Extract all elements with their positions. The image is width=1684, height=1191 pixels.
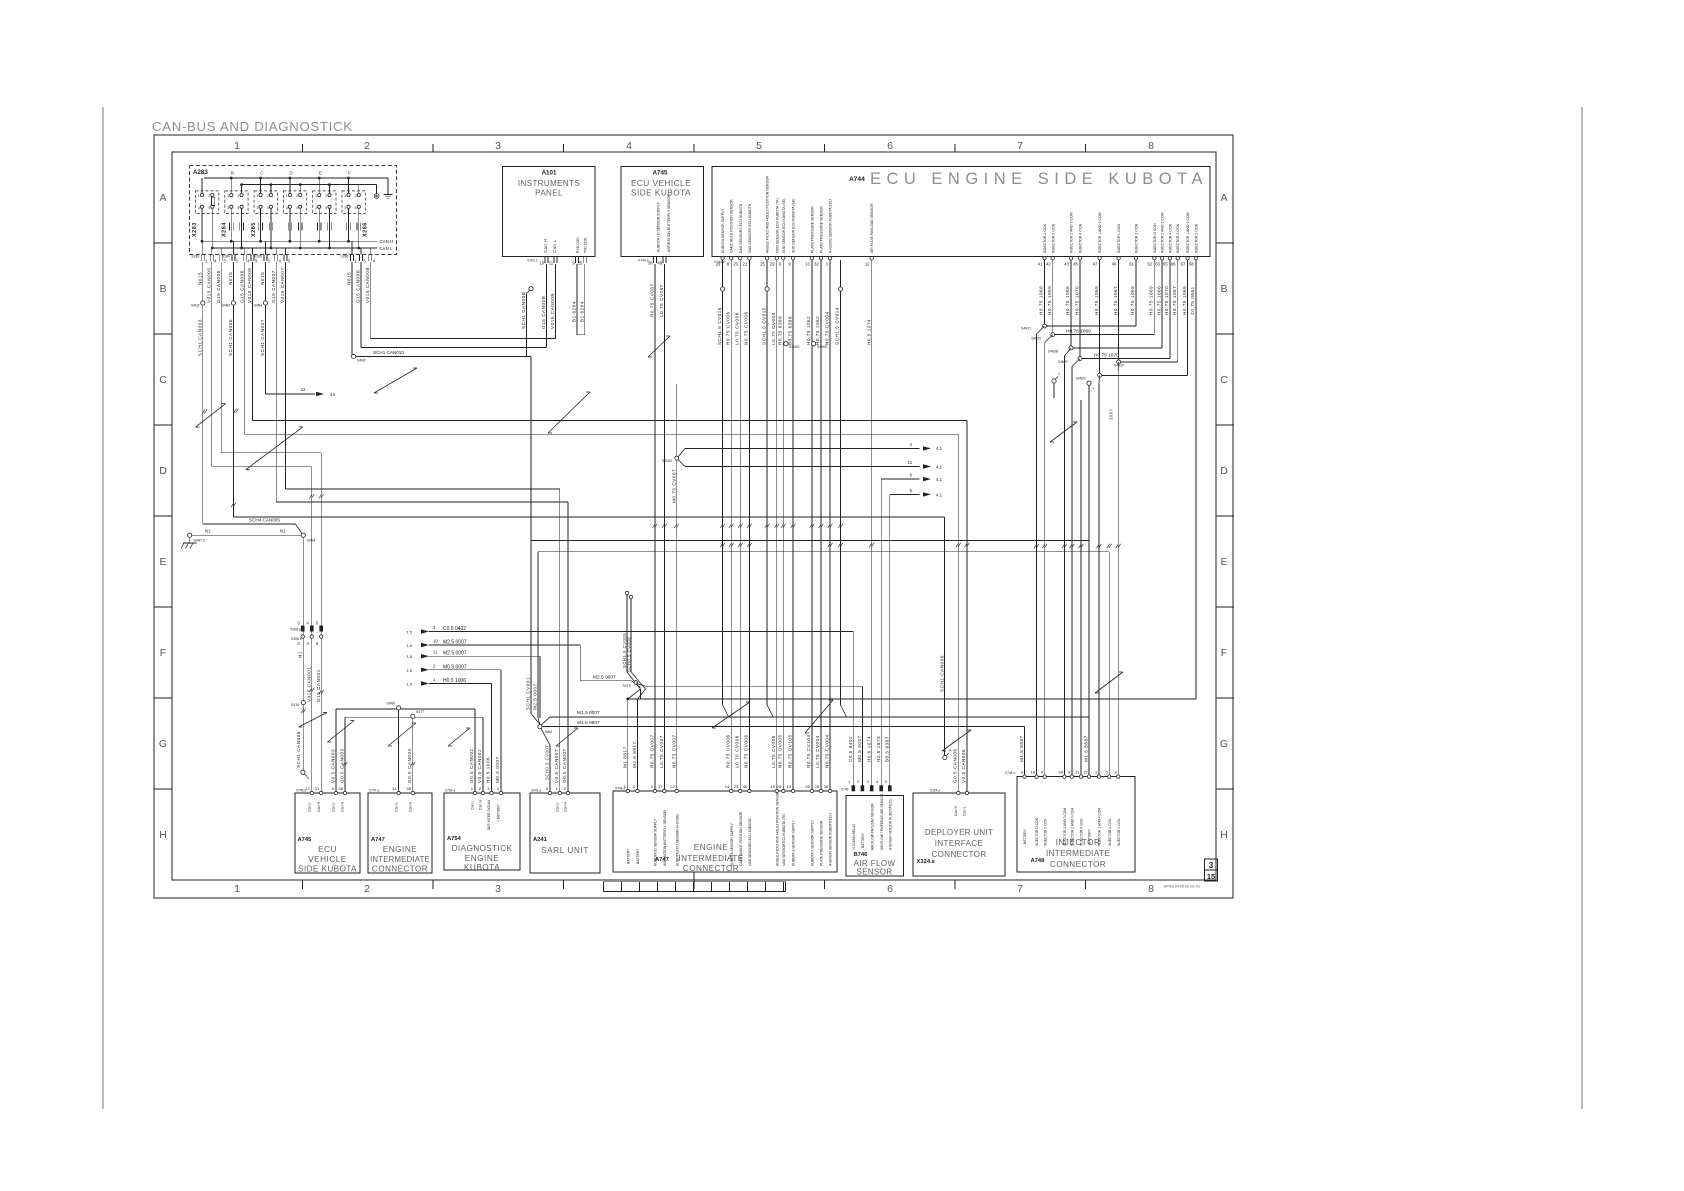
svg-text:Can H: Can H: [564, 801, 568, 812]
svg-text:H0.5 1006: H0.5 1006: [486, 757, 491, 783]
svg-text:R0.75 CV104: R0.75 CV104: [806, 734, 811, 768]
svg-text:H0.5 1074: H0.5 1074: [866, 319, 871, 345]
svg-text:4: 4: [355, 206, 357, 210]
svg-text:Can H: Can H: [954, 805, 958, 816]
svg-text:B: B: [159, 283, 166, 295]
svg-text:V015 CAN007: V015 CAN007: [280, 268, 285, 303]
connector block A283 dashed outline: [190, 166, 397, 255]
svg-text:Can L: Can L: [394, 802, 398, 812]
svg-text:X101.1: X101.1: [527, 259, 538, 263]
outer border frame: [154, 135, 1233, 898]
svg-text:67: 67: [1181, 262, 1186, 267]
injector verticals lower: [1080, 400, 1082, 775]
svg-text:SIDE KUBOTA: SIDE KUBOTA: [631, 189, 691, 198]
svg-text:KUBOTA ID SENSOR SUPPLY: KUBOTA ID SENSOR SUPPLY: [654, 818, 658, 866]
svg-text:G15 CAN00B: G15 CAN00B: [356, 270, 361, 303]
svg-text:M1.5 0807: M1.5 0807: [577, 720, 600, 726]
svg-text:PLATE PRESSURE SENSOR: PLATE PRESSURE SENSOR: [820, 820, 824, 866]
svg-text:41: 41: [1038, 262, 1043, 267]
svg-text:INJECTOR 2 CON: INJECTOR 2 CON: [1135, 223, 1139, 253]
inner drawing frame: [172, 152, 1216, 880]
svg-text:S4T7: S4T7: [416, 710, 424, 714]
wire N0.75 CV006: [748, 260, 750, 791]
svg-text:SCH1 CAN007: SCH1 CAN007: [260, 319, 265, 356]
svg-text:CMD SENSOR ECU KUBOTA (TK): CMD SENSOR ECU KUBOTA (TK): [775, 198, 779, 253]
svg-text:H0.75 1070: H0.75 1070: [1164, 286, 1169, 315]
svg-text:D: D: [289, 171, 293, 177]
svg-text:CONNECTOR: CONNECTOR: [1050, 860, 1106, 869]
A283 sub-connector B pin stubs: [230, 178, 232, 193]
wire G15 CAN007: [275, 262, 277, 502]
A283 sub-connector A dashed box: [196, 191, 219, 214]
svg-text:1: 1: [234, 140, 240, 152]
wire M2.5 8817: [638, 689, 646, 699]
svg-text:DEPLOYER UNIT: DEPLOYER UNIT: [925, 828, 993, 837]
A283 terminating resistor: [212, 197, 215, 205]
svg-text:68: 68: [1189, 262, 1194, 267]
svg-text:S4N02: S4N02: [789, 345, 799, 349]
svg-text:H0.75 1068: H0.75 1068: [1130, 286, 1135, 315]
svg-text:KUBOTA 3 SENSOR SUPPLY: KUBOTA 3 SENSOR SUPPLY: [811, 820, 815, 866]
A283 CAN H rail: [203, 240, 377, 242]
bus V015 CAN007 to A241: [286, 488, 560, 490]
svg-text:G15 CAN006: G15 CAN006: [240, 270, 245, 303]
svg-text:23: 23: [733, 262, 738, 267]
svg-text:M2.5 0007: M2.5 0007: [533, 683, 538, 710]
A283 sub-connector B dashed box: [225, 191, 248, 214]
wire R0.75 6388: [782, 260, 784, 791]
svg-text:38: 38: [339, 786, 344, 791]
svg-text:4: 4: [626, 140, 632, 152]
svg-text:4.1: 4.1: [936, 465, 943, 470]
twist slash over deployer wires: [942, 730, 971, 751]
svg-text:S4N6: S4N6: [222, 304, 231, 308]
svg-text:ENGINE: ENGINE: [465, 854, 499, 863]
bus G15 CAN00B: [361, 347, 546, 349]
wire V015 CAN007: [285, 262, 287, 489]
block DEPLOYER UNIT INTERFACE CONNECTOR: [913, 793, 1005, 876]
svg-text:INJECTOR 4 CON: INJECTOR 4 CON: [1079, 223, 1083, 253]
svg-text:G15 CAN001: G15 CAN001: [316, 669, 321, 702]
wire N015 to SCH1 CAN010 node: [351, 262, 353, 356]
bus SCH1 CAN006 to deployer: [233, 516, 944, 518]
bus CAN003 upper: [336, 708, 475, 710]
twist slash near arrow 42: [374, 368, 417, 393]
wire B1 6204 b: [584, 264, 586, 335]
wire H0.75 1062: [811, 260, 813, 791]
svg-text:ASPIRATION BUTTERFLY SENSOR: ASPIRATION BUTTERFLY SENSOR: [667, 194, 671, 252]
twist slash over A747b drops: [388, 723, 416, 746]
svg-text:X754.a: X754.a: [445, 789, 455, 793]
svg-text:AIR FLOW PAYLOAD SENSOR: AIR FLOW PAYLOAD SENSOR: [870, 803, 874, 850]
svg-text:INTERMEDIATE: INTERMEDIATE: [678, 854, 743, 863]
svg-text:21: 21: [743, 262, 748, 267]
bus M1.5 0007: [542, 717, 550, 725]
svg-text:1: 1: [227, 194, 229, 198]
svg-text:DIAGNOSTICK: DIAGNOSTICK: [452, 844, 513, 853]
open node 1: [1052, 379, 1056, 383]
A745 top pins: [652, 257, 654, 263]
svg-text:S4N2V: S4N2V: [1076, 377, 1087, 381]
bus G15 CAN005 to A745b: [221, 452, 321, 454]
svg-text:M1.5 8887: M1.5 8887: [1084, 735, 1089, 762]
svg-text:INTERMEDIATE: INTERMEDIATE: [370, 855, 430, 864]
page edge line left: [102, 107, 104, 1109]
svg-text:4.1: 4.1: [936, 446, 943, 451]
block A747 ENGINE INTERMEDIATE CONNECTOR small: [368, 793, 432, 873]
svg-text:B1 6204: B1 6204: [579, 301, 584, 322]
svg-text:G0.5 CAN003: G0.5 CAN003: [340, 748, 345, 783]
A283 upper rail 2: [242, 184, 376, 186]
wire to A747b pin31: [398, 710, 400, 792]
svg-text:V015 CAN00B: V015 CAN00B: [365, 267, 370, 303]
svg-text:CAN H: CAN H: [380, 239, 394, 244]
svg-text:Can L: Can L: [471, 800, 475, 810]
bus SCH1 CAN010: [356, 355, 531, 357]
branch arrows 4 and 13: [678, 448, 685, 456]
svg-text:A+ENGIN SENSOR KUBOTA ECU: A+ENGIN SENSOR KUBOTA ECU: [888, 798, 892, 850]
svg-text:N1: N1: [298, 651, 303, 658]
svg-text:V015 CAN001: V015 CAN001: [307, 667, 312, 702]
svg-text:V015 CAN006: V015 CAN006: [247, 268, 252, 303]
svg-text:INJECTOR 3 CON: INJECTOR 3 CON: [1194, 223, 1198, 253]
node S4N8: [397, 706, 401, 710]
svg-text:INTERFACE: INTERFACE: [935, 839, 984, 848]
svg-text:H0.75 1065: H0.75 1065: [1094, 286, 1099, 315]
svg-text:INJECTOR 1 AND 4 COM: INJECTOR 1 AND 4 COM: [1098, 212, 1102, 253]
wire M1 8817: [640, 689, 642, 699]
svg-text:2: 2: [267, 194, 269, 198]
svg-text:43: 43: [1064, 262, 1069, 267]
svg-text:B0.75 6388: B0.75 6388: [787, 316, 792, 345]
svg-text:CAN L: CAN L: [380, 246, 393, 251]
svg-text:Can L: Can L: [556, 802, 560, 812]
svg-text:A745: A745: [653, 170, 668, 177]
X crossing S4T9: [626, 595, 628, 672]
svg-text:S4N2Y: S4N2Y: [1058, 360, 1069, 364]
svg-text:28: 28: [815, 784, 820, 789]
svg-text:SCH1 CAN006: SCH1 CAN006: [939, 655, 944, 692]
svg-text:2: 2: [237, 194, 239, 198]
wire SCH1.5 CV016: [721, 287, 725, 291]
svg-text:Z0.75 0681: Z0.75 0681: [1190, 286, 1195, 315]
svg-text:X324.a: X324.a: [930, 789, 940, 793]
svg-text:A241: A241: [533, 837, 548, 843]
svg-text:D: D: [159, 465, 167, 477]
svg-text:X324.s: X324.s: [917, 859, 935, 865]
svg-text:G15 CAN005: G15 CAN005: [216, 270, 221, 303]
arrow 6 to 4.1: [881, 478, 919, 480]
svg-text:G15 CAN00B: G15 CAN00B: [541, 296, 546, 329]
svg-text:31: 31: [315, 786, 320, 791]
svg-text:G: G: [159, 738, 167, 750]
svg-text:Can L: Can L: [332, 802, 336, 812]
wire G15 CAN00B from A101 pin10: [545, 264, 547, 348]
svg-text:E: E: [159, 556, 166, 568]
svg-text:3: 3: [495, 140, 501, 152]
svg-text:2: 2: [325, 194, 327, 198]
twist slash over injector merge: [1050, 422, 1077, 442]
wire L0.75 CV087: [663, 264, 665, 791]
svg-text:13: 13: [907, 460, 912, 465]
svg-text:VEHICLE: VEHICLE: [308, 855, 347, 864]
svg-text:X285: X285: [251, 222, 257, 237]
block B746 AIR FLOW SENSOR: [846, 796, 903, 876]
terminal strip under A747: [603, 881, 785, 883]
svg-text:B0.5 6387: B0.5 6387: [885, 736, 890, 762]
twist slash over CAN003 drops: [327, 721, 354, 743]
svg-text:Can H: Can H: [409, 801, 413, 812]
svg-text:N015: N015: [198, 272, 203, 285]
svg-text:2: 2: [355, 194, 357, 198]
bus M2.5 0007 arrow11: [429, 655, 540, 657]
svg-text:Can L: Can L: [552, 239, 557, 253]
wire G15 CAN005: [220, 262, 222, 453]
B1 6204 loop: [577, 334, 585, 336]
svg-text:M0.5 0007: M0.5 0007: [857, 735, 862, 762]
svg-text:Can L: Can L: [963, 806, 967, 816]
svg-text:CAM2 ANGLE POSITION SENSOR: CAM2 ANGLE POSITION SENSOR: [739, 811, 743, 866]
svg-text:GPSG 04.05.02 rev 01: GPSG 04.05.02 rev 01: [1164, 885, 1200, 889]
svg-text:A+GSOG SENSOR KUBOTA ECU: A+GSOG SENSOR KUBOTA ECU: [829, 199, 833, 253]
svg-text:1: 1: [315, 194, 317, 198]
node S4N0 on SCH1 CAN010: [352, 354, 356, 358]
wire SCH1 CV001: [530, 356, 532, 540]
svg-text:ECU VEHICLE: ECU VEHICLE: [631, 179, 691, 188]
bus V015 CAN00B: [370, 338, 555, 340]
svg-text:62: 62: [1147, 262, 1152, 267]
svg-text:KUBOTA: KUBOTA: [464, 863, 500, 872]
svg-text:32: 32: [814, 262, 819, 267]
svg-text:INJECTOR 4 CON: INJECTOR 4 CON: [1080, 818, 1084, 846]
twist slash over CV004 group: [805, 700, 833, 733]
wire V015 CAN005: [211, 262, 213, 467]
svg-text:M0.75 CV007: M0.75 CV007: [671, 469, 676, 503]
svg-text:SIDE KUBOTA: SIDE KUBOTA: [298, 865, 357, 874]
svg-text:L0.75 CV005: L0.75 CV005: [771, 735, 776, 768]
column ticks bottom: [302, 880, 304, 889]
svg-text:+ BATTERY: + BATTERY: [497, 803, 501, 822]
svg-text:INJECTOR 1 AND 4 COM: INJECTOR 1 AND 4 COM: [1098, 808, 1102, 846]
A101 pins: [544, 257, 546, 263]
svg-text:S4N21: S4N21: [1021, 327, 1031, 331]
wire V015 CAN006: [251, 262, 253, 421]
svg-text:4.1: 4.1: [936, 492, 943, 497]
svg-text:SARL UNIT: SARL UNIT: [541, 846, 589, 855]
twist slash over CAN006 group: [246, 427, 303, 470]
svg-text:Can H: Can H: [479, 799, 483, 810]
svg-text:V0.5 CAN003: V0.5 CAN003: [330, 749, 335, 783]
svg-text:10: 10: [433, 639, 438, 644]
wire SCH1 CAN00B from A101: [529, 287, 533, 291]
bus C0.5 0402 to B746 pin1: [429, 631, 853, 633]
A283 sub-connector F dashed box: [342, 191, 365, 214]
svg-text:PANEL: PANEL: [535, 189, 563, 198]
wire V015 CAN00B A283 side: [369, 262, 371, 339]
svg-text:25: 25: [578, 261, 583, 266]
svg-text:R0.75 CV006: R0.75 CV006: [725, 734, 730, 768]
svg-text:3: 3: [495, 883, 501, 895]
svg-text:6: 6: [887, 883, 893, 895]
wire G0.5 CAN004 to A747b: [412, 718, 414, 792]
svg-text:A744: A744: [849, 176, 865, 183]
svg-text:46: 46: [1112, 262, 1117, 267]
ground symbol: [189, 537, 191, 543]
svg-text:12: 12: [865, 262, 870, 267]
A283 sub-connector D dashed box: [283, 191, 306, 214]
svg-text:SCH0.5 CV007: SCH0.5 CV007: [545, 745, 550, 780]
svg-text:38: 38: [648, 261, 653, 266]
svg-text:S4N3B: S4N3B: [1048, 350, 1058, 354]
svg-text:L0.75 CV006: L0.75 CV006: [735, 735, 740, 768]
bus 699 long: [628, 698, 1196, 700]
svg-text:13: 13: [805, 262, 810, 267]
svg-text:23: 23: [734, 784, 739, 789]
svg-text:G: G: [1220, 738, 1228, 750]
svg-text:A748: A748: [1031, 858, 1046, 864]
svg-text:4: 4: [208, 206, 210, 210]
wire R0.75 CV006: [730, 260, 732, 791]
svg-text:V015 CAN005: V015 CAN005: [207, 268, 212, 303]
svg-text:N0.75 CV004: N0.75 CV004: [824, 734, 829, 768]
X crossing diag to bus 686: [637, 684, 646, 687]
svg-text:15: 15: [770, 784, 775, 789]
row ticks right: [1216, 242, 1234, 244]
svg-text:H0.5 1074: H0.5 1074: [866, 736, 871, 762]
svg-text:N0.75 CV006: N0.75 CV006: [744, 734, 749, 768]
svg-text:4: 4: [237, 206, 239, 210]
svg-text:M0.5 0007: M0.5 0007: [495, 756, 500, 783]
injector merge node S4N2Y: [1079, 260, 1081, 359]
injector merge node S4N29: [1052, 260, 1054, 335]
svg-text:29: 29: [770, 262, 775, 267]
svg-text:X744.a: X744.a: [714, 260, 725, 264]
svg-text:N0.75 CV005: N0.75 CV005: [778, 734, 783, 768]
svg-text:R0.75 6388: R0.75 6388: [778, 316, 783, 345]
svg-text:48: 48: [657, 261, 662, 266]
injector merge node S4N2V: [1099, 260, 1101, 376]
svg-text:V0.5 CAN006: V0.5 CAN006: [961, 749, 966, 783]
svg-text:F: F: [348, 171, 351, 177]
svg-text:5: 5: [756, 140, 762, 152]
svg-text:F: F: [160, 647, 166, 659]
svg-text:4.1: 4.1: [936, 477, 943, 482]
svg-text:V0.5 CAN007: V0.5 CAN007: [554, 749, 559, 783]
svg-text:X283: X283: [191, 255, 199, 259]
svg-text:X286: X286: [341, 255, 349, 259]
svg-text:A+ENGIN SENSOR KUBOTA ECU: A+ENGIN SENSOR KUBOTA ECU: [829, 813, 833, 866]
svg-text:11: 11: [433, 650, 438, 655]
svg-text:S4N2: S4N2: [191, 304, 200, 308]
svg-text:L0.75 CV006: L0.75 CV006: [735, 312, 740, 345]
svg-text:S4N4: S4N4: [307, 539, 316, 543]
svg-text:X284: X284: [222, 222, 228, 237]
svg-text:14: 14: [725, 784, 730, 789]
injector merge node S4N3B: [1070, 260, 1072, 348]
A283 upper rail 1: [204, 177, 388, 179]
bus to injector pin5: [538, 551, 1109, 553]
wire N0.75 CV004: [829, 260, 831, 791]
svg-text:INJECTOR L CON: INJECTOR L CON: [1117, 224, 1121, 253]
svg-text:H0.75 1070: H0.75 1070: [1074, 286, 1079, 315]
svg-text:H0.75 1067: H0.75 1067: [1113, 286, 1118, 315]
svg-text:H: H: [1220, 829, 1228, 841]
twist slash over injector wires lower: [1095, 672, 1123, 693]
svg-text:X284: X284: [222, 255, 230, 259]
svg-text:Can L: Can L: [308, 802, 312, 812]
wire V015 CAN00B from A101 pin11: [554, 264, 556, 339]
svg-text:S4N00: S4N00: [817, 345, 827, 349]
svg-text:3: 3: [227, 206, 229, 210]
wire M0.75 CV007: [676, 384, 678, 791]
svg-text:1: 1: [234, 883, 240, 895]
svg-text:SUD SENSOR ECU KUBOTA (SE): SUD SENSOR ECU KUBOTA (SE): [792, 199, 796, 253]
A283 earth symbol right: [387, 178, 389, 195]
injector merge node S4N3V: [1118, 260, 1120, 362]
svg-text:G0.5 CAN007: G0.5 CAN007: [562, 748, 567, 783]
svg-text:INJECTOR 2 AND 3 COM: INJECTOR 2 AND 3 COM: [1071, 808, 1075, 846]
svg-text:ECU: ECU: [318, 845, 337, 854]
svg-text:X306.p: X306.p: [290, 628, 301, 632]
svg-text:C: C: [260, 171, 264, 177]
svg-text:1: 1: [1058, 372, 1060, 376]
wire SCH1.5 CV014: [838, 287, 842, 291]
A283 earth symbol plus: [374, 194, 379, 199]
svg-text:1: 1: [286, 194, 288, 198]
svg-text:KUBOTA ECU SENSOR A+GSOG: KUBOTA ECU SENSOR A+GSOG: [675, 814, 679, 866]
svg-text:SUD SENSOR ECU KUBOTA (SE): SUD SENSOR ECU KUBOTA (SE): [782, 199, 786, 253]
svg-text:X747.a: X747.a: [369, 789, 379, 793]
svg-text:4: 4: [325, 206, 327, 210]
svg-text:ECU ENGINE SIDE KUBOTA: ECU ENGINE SIDE KUBOTA: [870, 170, 1208, 188]
A283 sub-connector F pin stubs: [348, 178, 350, 193]
svg-text:SCH1 CAN00B: SCH1 CAN00B: [521, 292, 526, 329]
svg-text:44: 44: [330, 392, 335, 397]
crossing marks on CAN001 wires: [309, 494, 314, 498]
svg-text:- BATTERY: - BATTERY: [626, 848, 630, 866]
svg-text:42: 42: [301, 387, 306, 392]
svg-text:M1 8817: M1 8817: [623, 746, 628, 768]
node S4T7: [411, 714, 415, 718]
block A745 ECU VEHICLE SIDE KUBOTA bottom: [295, 793, 360, 873]
svg-text:G0.5 CAN006: G0.5 CAN006: [953, 748, 958, 783]
block A101 INSTRUMENTS PANEL: [503, 166, 596, 256]
svg-text:N015: N015: [260, 272, 265, 285]
A283 sub-connector E dashed box: [313, 191, 336, 214]
svg-text:CONNECTOR: CONNECTOR: [372, 865, 428, 874]
wire L0.75 CV005: [776, 260, 778, 791]
svg-text:S4N3V: S4N3V: [1114, 364, 1125, 368]
svg-text:C: C: [1220, 374, 1228, 386]
svg-text:61: 61: [1129, 262, 1134, 267]
page edge line right: [1581, 107, 1583, 1109]
svg-text:- BATTERY: - BATTERY: [1023, 828, 1027, 846]
svg-text:40: 40: [743, 784, 748, 789]
node S4N4: [301, 533, 305, 537]
svg-text:2: 2: [364, 140, 370, 152]
svg-text:INJECTOR 2 AND 3 COM: INJECTOR 2 AND 3 COM: [1070, 212, 1074, 253]
svg-text:N015: N015: [347, 272, 352, 285]
row ticks left: [154, 242, 172, 244]
svg-text:28: 28: [777, 784, 782, 789]
svg-text:3: 3: [286, 206, 288, 210]
bus M2.5 0007 arrow10: [429, 644, 580, 646]
svg-text:SENSOR: SENSOR: [856, 868, 892, 877]
wire G15 CAN00B A283 side: [360, 262, 362, 348]
svg-text:A101: A101: [542, 170, 557, 177]
svg-text:M2.5 0007: M2.5 0007: [593, 674, 616, 680]
svg-text:S4N4: S4N4: [254, 304, 263, 308]
